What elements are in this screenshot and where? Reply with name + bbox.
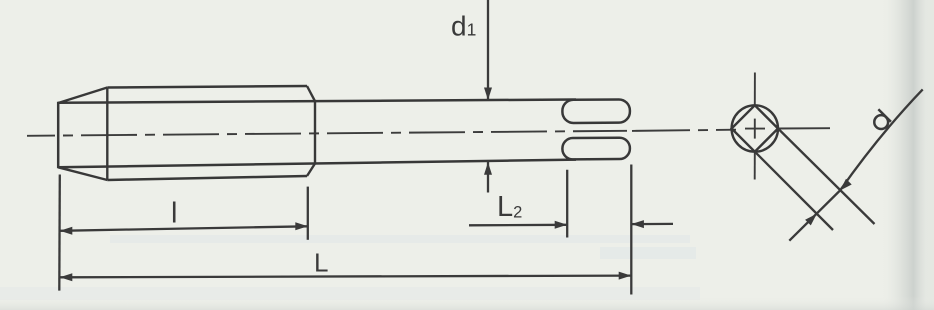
dimension l line bbox=[60, 226, 308, 231]
dimension l left arrow bbox=[60, 227, 73, 235]
dimension a curved leader bbox=[840, 89, 923, 190]
dimension L line bbox=[60, 276, 631, 278]
dimension L left arrow bbox=[60, 273, 73, 281]
thread major bottom line bbox=[107, 176, 307, 180]
right edge page shadow bbox=[880, 0, 934, 310]
right chamfer bottom bbox=[307, 164, 315, 177]
extension line square left (for L2) bbox=[566, 170, 568, 238]
faint scan band lower middle bbox=[110, 235, 690, 243]
centerline main (dash-dot) bbox=[27, 131, 627, 136]
dimension L2 line left part bbox=[469, 224, 567, 227]
left chamfer bottom bbox=[58, 167, 107, 180]
dimension L2 line right part bbox=[631, 223, 673, 226]
angle extension line upper (square side extended) bbox=[778, 129, 875, 225]
centerline right of circle bbox=[778, 127, 830, 129]
bottom edge shade bbox=[0, 296, 934, 310]
dimension d1 upper arrow bbox=[484, 88, 492, 101]
faint table ghost right of tap bbox=[600, 247, 696, 259]
thread end vertical bbox=[314, 100, 316, 164]
right chamfer top bbox=[307, 86, 315, 101]
left chamfer top bbox=[58, 88, 107, 104]
end-view vertical centerline upper bbox=[754, 73, 756, 106]
dimension d1 lower arrow bbox=[484, 162, 492, 175]
centerline right section bbox=[632, 130, 736, 131]
dimension l right arrow bbox=[295, 222, 308, 230]
end view circle (shank) bbox=[732, 105, 778, 151]
faint scan band bottom bbox=[0, 287, 700, 300]
thread major diameter start vertical bbox=[106, 88, 108, 181]
dimension a arrow upper (points SW) bbox=[840, 179, 852, 191]
dimension a arrow lower (points NE) bbox=[805, 214, 817, 226]
svg-text:l: l bbox=[171, 198, 177, 230]
extension line tap end (for L2 and L) bbox=[630, 165, 632, 295]
dimension a label bbox=[868, 109, 891, 132]
end view square (rotated 45) bbox=[732, 105, 778, 151]
extension line thread end (for l) bbox=[307, 187, 309, 240]
centerline dash at end-view center bbox=[745, 128, 765, 130]
end-view vertical centerline lower bbox=[754, 152, 756, 180]
dimension d1 lower line bbox=[487, 161, 489, 192]
end-view vertical center dash bbox=[754, 119, 756, 139]
dimension L2 arrow right (points left) bbox=[631, 220, 644, 228]
square flat lower (stadium) bbox=[562, 138, 630, 160]
svg-text:L: L bbox=[314, 248, 328, 278]
dimension a line straight part bbox=[789, 191, 840, 241]
extension line left (for l and L) bbox=[58, 175, 61, 291]
angle extension line lower (square side extended) bbox=[755, 152, 833, 230]
square flat upper (stadium) bbox=[562, 99, 630, 123]
dimension L2 arrow left (points right) bbox=[555, 221, 568, 229]
thread major top line bbox=[107, 86, 307, 88]
dimension d1 upper line bbox=[487, 0, 489, 100]
tap tip face (left vertical) bbox=[57, 102, 60, 169]
shank bottom line bbox=[58, 160, 576, 168]
dimension L right arrow bbox=[619, 272, 632, 280]
shank top line bbox=[58, 100, 576, 103]
